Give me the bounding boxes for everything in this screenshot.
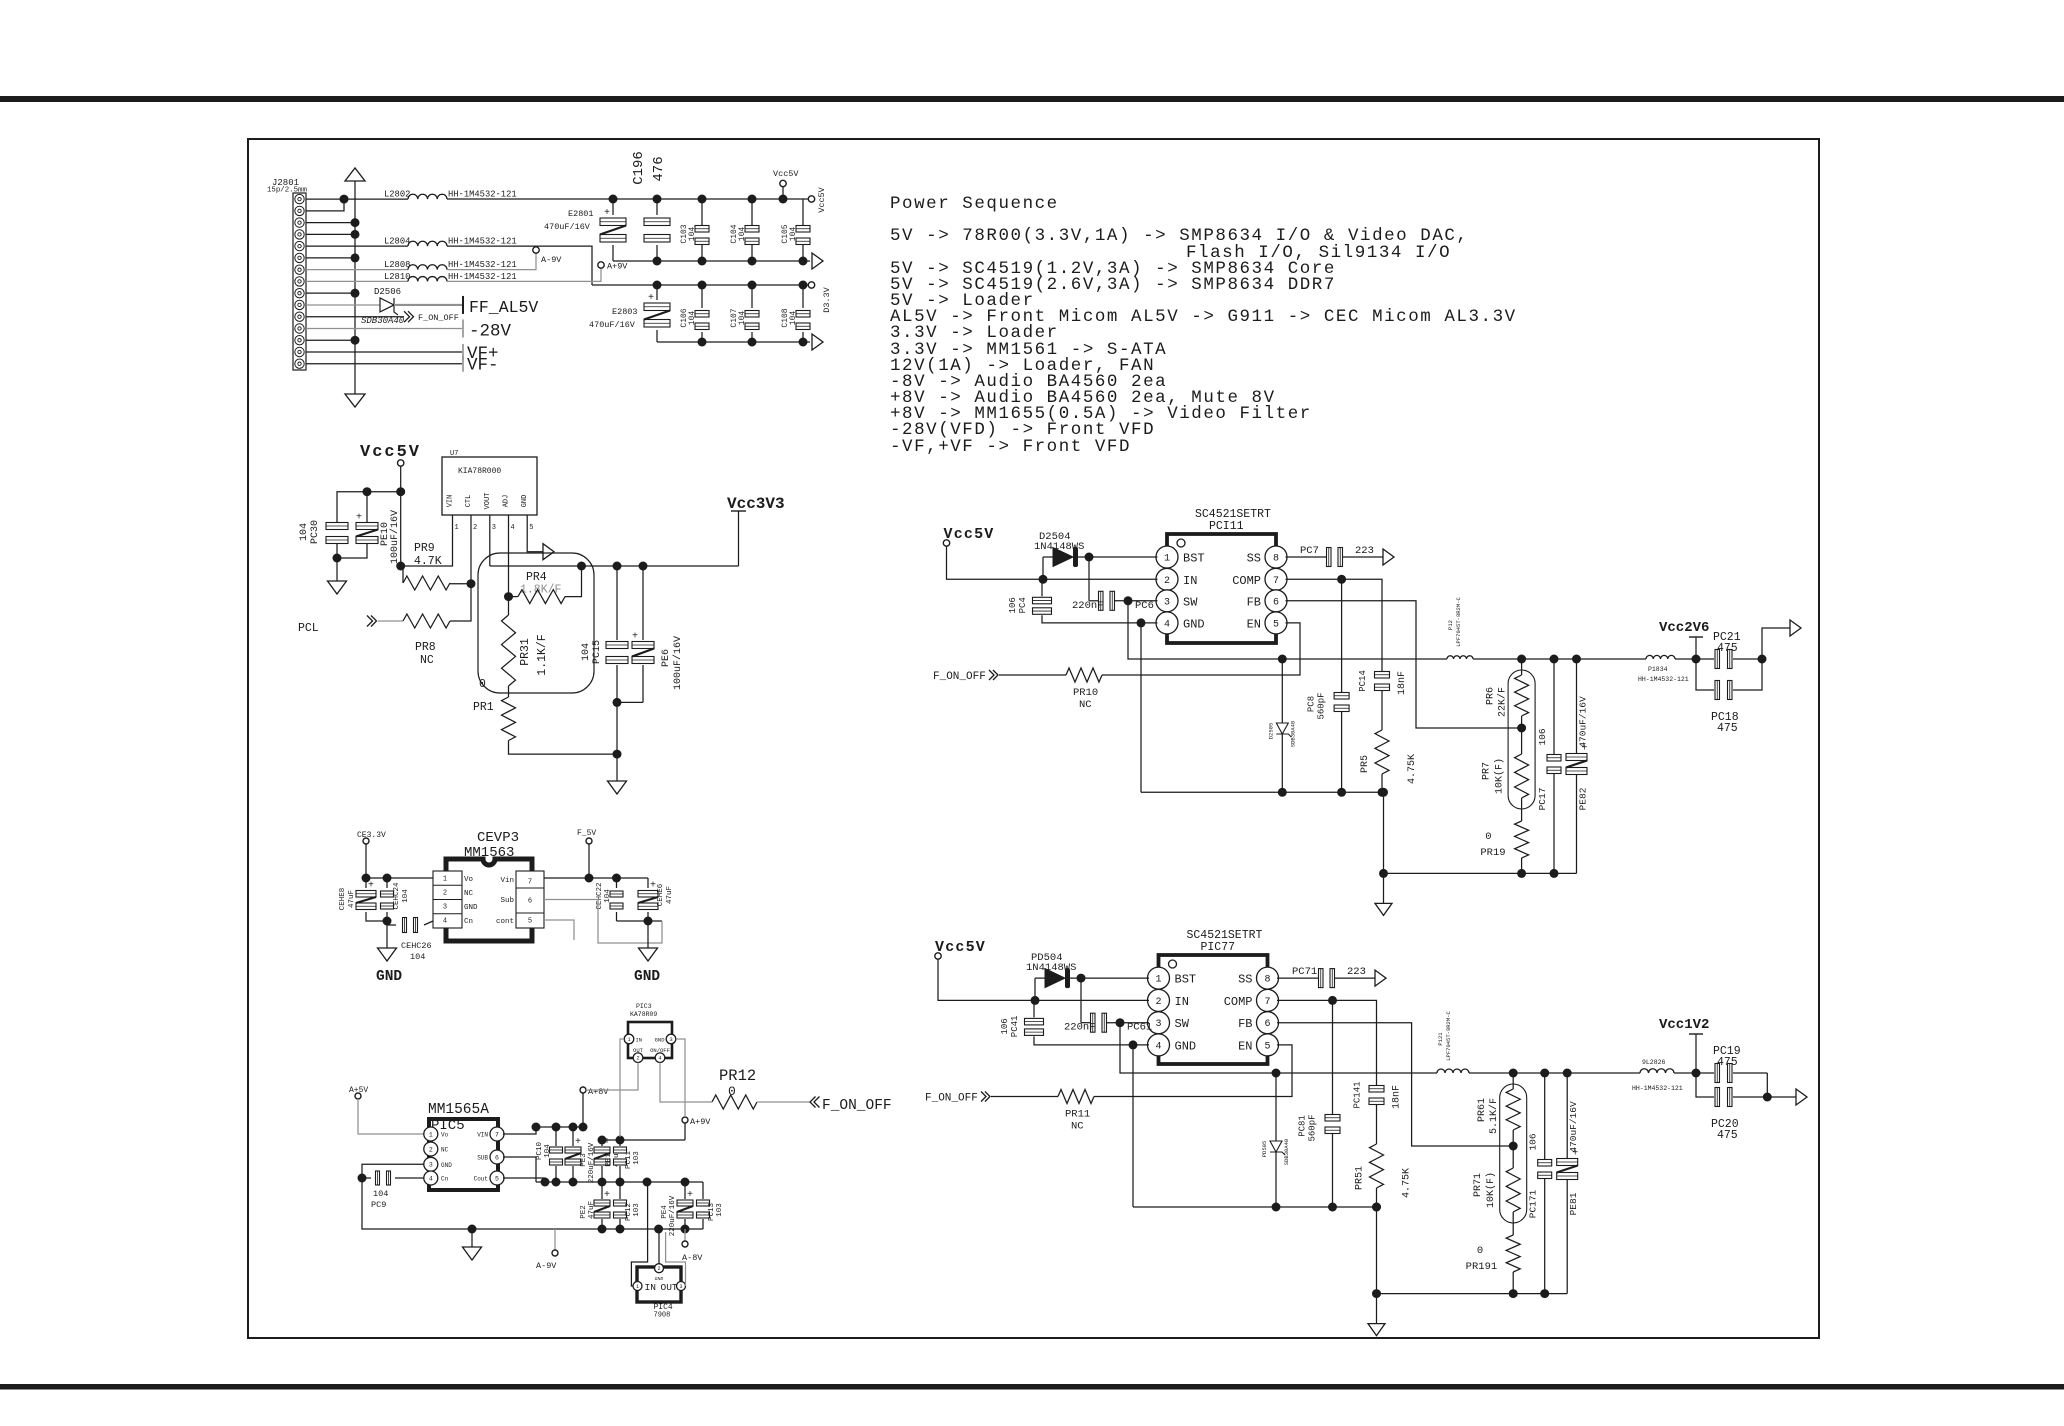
- wire PE10 bottom lead: [337, 544, 367, 558]
- svg-text:L2802: L2802: [384, 190, 410, 200]
- svg-text:PR71: PR71: [1473, 1173, 1484, 1197]
- svg-text:SW: SW: [1175, 1017, 1190, 1031]
- junction out node 2 (PIC77): [1763, 1093, 1772, 1102]
- wire PIC4 GND stem: [658, 1229, 660, 1264]
- label A-9V: [541, 255, 562, 265]
- svg-text:2: 2: [443, 890, 447, 898]
- label 470uF/16V (PE81) rotated: [1568, 1101, 1579, 1153]
- wire pin15 to VF-: [306, 363, 462, 365]
- wire PR to EN (PCI11): [1102, 623, 1300, 675]
- wire PIC4 IN feed: [631, 1182, 647, 1286]
- svg-text:PR12: PR12: [719, 1067, 756, 1085]
- label 10K(F) (PIC77) rotated: [1485, 1172, 1497, 1208]
- label SC4521SETRT (PCI11): [1195, 508, 1271, 521]
- label A+5V: [349, 1086, 368, 1095]
- wire MM1563 cont stub: [544, 920, 574, 940]
- svg-text:HH-1M4532-121: HH-1M4532-121: [448, 272, 517, 282]
- label 220nF (PCI11): [1072, 600, 1104, 612]
- wire A+5V to PIC5 Vo: [358, 1099, 424, 1134]
- svg-text:1: 1: [443, 876, 447, 884]
- schematic border frame: [248, 139, 1819, 1338]
- capacitor CEHE8 47uF: [356, 881, 376, 910]
- wire pin1 to L2802: [306, 198, 408, 200]
- wire C104 bottom lead: [751, 245, 753, 261]
- svg-text:104: 104: [688, 227, 697, 242]
- wire PC13 leads: [702, 1182, 704, 1199]
- wire zener lower lead (PIC77): [1275, 1152, 1277, 1207]
- svg-text:P1834: P1834: [1648, 666, 1668, 673]
- wire PC15 top lead: [616, 566, 618, 640]
- wire L2804 to lower rail: [447, 246, 592, 285]
- chevron F_ON_OFF in: [810, 1097, 820, 1108]
- label A-8V: [682, 1253, 703, 1263]
- label PIC5 pin Cn: [441, 1176, 449, 1183]
- junction stadium top (PCI11): [1517, 655, 1526, 664]
- net label -28V: [469, 321, 512, 341]
- capacitor PE4 220uF/16V: [677, 1190, 693, 1218]
- IC PIC3 pin 2 (OUT): [633, 1047, 644, 1062]
- net label F_ON_OFF (PIC77): [925, 1093, 978, 1105]
- net label F_ON_OFF (connector): [418, 313, 459, 323]
- wire COMP riser (PCI11): [1341, 579, 1343, 692]
- wire cathode to BST (PCI11): [1077, 556, 1158, 558]
- power sequence text line 1: [890, 194, 1059, 214]
- label PIC77 pin IN: [1175, 995, 1189, 1009]
- svg-text:FB: FB: [1247, 595, 1261, 609]
- wire PC14 to PR5: [1381, 691, 1383, 730]
- resistor PR31 1.1K/F: [502, 615, 516, 686]
- svg-text:COMP: COMP: [1224, 995, 1253, 1009]
- svg-text:3: 3: [492, 524, 496, 532]
- wire GND riser (PIC77): [1132, 1045, 1134, 1207]
- junction CTL node: [467, 579, 476, 588]
- junction CEHC22 top: [612, 874, 621, 883]
- label PC171 rotated: [1528, 1189, 1539, 1218]
- label PCI11: [1209, 520, 1244, 533]
- svg-text:100uF/16V: 100uF/16V: [672, 636, 684, 690]
- chevron F_ON_OFF (PCI11): [989, 670, 998, 680]
- svg-text:GND: GND: [376, 969, 402, 985]
- power sequence text line 15: [890, 437, 1131, 457]
- label 9L2826: [1642, 1059, 1666, 1066]
- capacitor PE1 47uF: [594, 1137, 610, 1165]
- label MM1565A: [428, 1102, 489, 1118]
- label PR1 value 0: [479, 678, 486, 691]
- junction divider mid (PCI11): [1517, 724, 1526, 733]
- label A-9V (PIC5): [536, 1261, 557, 1271]
- svg-text:220nF: 220nF: [1072, 600, 1104, 612]
- label C106 rotated: [680, 308, 689, 327]
- svg-text:D2505: D2505: [1267, 723, 1274, 740]
- net label FF_AL5V: [469, 298, 538, 317]
- svg-text:GND: GND: [634, 969, 660, 985]
- svg-text:7: 7: [528, 879, 532, 887]
- junction PIC5 gnd stem: [468, 1225, 477, 1234]
- wire zener lower lead (PCI11): [1281, 734, 1283, 792]
- net arrow SS (PIC77): [1375, 970, 1386, 986]
- terminal T-bar Vcc2V6: [1689, 636, 1703, 638]
- svg-text:SS: SS: [1238, 973, 1252, 987]
- net label Vcc3V3: [727, 495, 785, 513]
- label U7 pin CTL rotated: [465, 495, 473, 508]
- label MM1563 pin Cn: [464, 918, 473, 926]
- IC PCI11 SC4521SETRT body: [1167, 534, 1276, 643]
- terminal T-bar Vcc3V3: [731, 510, 746, 512]
- connector J2801 size label: [267, 187, 307, 195]
- label PC6: [1135, 600, 1154, 612]
- chevron F_ON_OFF (PIC77): [981, 1092, 990, 1102]
- junction Vcc5V rail x=783: [779, 195, 788, 204]
- connector J2801 15-pin header: [293, 193, 306, 370]
- capacitor C196 476: [644, 218, 670, 242]
- capacitor PE10 100uF/16V: [356, 513, 378, 544]
- svg-text:8: 8: [1273, 554, 1279, 565]
- junction PC8 bottom: [1337, 788, 1346, 797]
- svg-text:475: 475: [1717, 1056, 1738, 1069]
- wire pin12 to -28V: [306, 327, 462, 329]
- wire PR4 right lead: [565, 566, 582, 597]
- label PIC3: [636, 1003, 652, 1010]
- capacitor PC17 106: [1547, 755, 1561, 774]
- label PR12: [719, 1067, 756, 1085]
- label PIC4 OUT: [661, 1282, 678, 1293]
- label 470uF/16V (PE82) rotated: [1578, 696, 1589, 748]
- label PC21: [1713, 631, 1741, 644]
- terminal A+8V: [580, 1087, 586, 1093]
- svg-text:CEHC22: CEHC22: [596, 882, 604, 909]
- svg-text:PC171: PC171: [1528, 1189, 1539, 1218]
- wire PR19 bottom lead: [1521, 858, 1523, 873]
- label PIC5 pin GND: [441, 1162, 452, 1169]
- svg-text:PIC77: PIC77: [1201, 941, 1236, 954]
- svg-text:A+8V: A+8V: [588, 1087, 609, 1097]
- junction out node 2 (PCI11): [1758, 655, 1767, 664]
- svg-text:PR31: PR31: [519, 638, 532, 666]
- svg-text:223: 223: [1355, 545, 1374, 557]
- capacitor PC20 475: [1715, 1088, 1732, 1107]
- wire PC4 bottom lead: [1042, 615, 1158, 623]
- svg-text:0: 0: [479, 678, 486, 691]
- svg-text:223: 223: [1347, 966, 1366, 978]
- label 4.75K (PCI11) rotated: [1407, 754, 1418, 784]
- svg-text:PC7: PC7: [1300, 545, 1319, 557]
- svg-text:4.75K: 4.75K: [1402, 1168, 1413, 1198]
- svg-text:7: 7: [1264, 997, 1270, 1008]
- wire PIC3 ON/OFF to PR12: [660, 1063, 712, 1103]
- wire Vcc5V rail: [447, 198, 810, 200]
- junction zener bottom (PCI11): [1278, 788, 1287, 797]
- connector J2801 label: [272, 178, 299, 188]
- svg-text:3: 3: [669, 1036, 672, 1043]
- label 4.75K (PIC77) rotated: [1402, 1168, 1413, 1198]
- IC PIC4 pin 2 (GND): [655, 1264, 664, 1282]
- ground (PCI11): [1375, 903, 1392, 915]
- label SDB30A40: [361, 316, 405, 326]
- label E2801: [568, 209, 594, 219]
- svg-text:HH-1M4532-121: HH-1M4532-121: [448, 190, 517, 200]
- svg-text:A+9V: A+9V: [607, 262, 628, 272]
- svg-text:GND: GND: [655, 1037, 666, 1044]
- label PC17 rotated: [1537, 788, 1548, 811]
- svg-text:COMP: COMP: [1232, 574, 1261, 588]
- divider outline stadium (PCI11): [1508, 670, 1535, 809]
- label SDB30A40 (PCI11) rotated: [1289, 721, 1296, 747]
- wire C108 top lead: [802, 285, 804, 308]
- svg-text:470uF/16V: 470uF/16V: [1578, 696, 1589, 748]
- svg-text:F_ON_OFF: F_ON_OFF: [933, 671, 986, 683]
- junction VOUT line x=617: [613, 562, 622, 571]
- svg-text:5: 5: [1264, 1041, 1270, 1052]
- svg-text:PE1: PE1: [605, 1153, 613, 1167]
- wire SS lead (PIC77): [1277, 977, 1318, 979]
- svg-text:7908: 7908: [654, 1312, 671, 1320]
- label C107 rotated: [730, 308, 739, 327]
- svg-text:4.75K: 4.75K: [1407, 754, 1418, 784]
- wire diode riser (PCI11): [1042, 557, 1044, 579]
- label PC14 rotated: [1358, 670, 1368, 692]
- label 220nF (PIC77): [1064, 1022, 1096, 1034]
- svg-text:103: 103: [633, 1151, 641, 1165]
- wire Vcc5V terminal stem: [782, 187, 784, 199]
- svg-text:Cn: Cn: [464, 918, 473, 926]
- label HH-1M4532-121 (PCI11): [1638, 676, 1689, 683]
- wire gnd symbol stem (PCI11): [1383, 873, 1385, 903]
- wire Vcc3V3 stem: [738, 511, 740, 566]
- capacitor PC171 106: [1538, 1160, 1552, 1179]
- label L2810: [384, 272, 410, 282]
- power sequence text line 3: [1186, 243, 1451, 263]
- label 223 (PCI11): [1355, 545, 1374, 557]
- ground (U7 output): [608, 781, 627, 794]
- wire MM1563 Sub route: [544, 900, 662, 944]
- wire Vcc5V to IN (PCI11): [947, 546, 1158, 579]
- junction GND riser (PIC77): [1129, 1040, 1138, 1049]
- capacitor C108 104: [796, 311, 810, 330]
- svg-text:1: 1: [1155, 975, 1161, 986]
- feedback network outline (stadium): [478, 553, 594, 693]
- svg-text:Vin: Vin: [500, 877, 514, 885]
- wire PE81 bottom lead: [1566, 1179, 1568, 1294]
- label PC13 value 103 rotated: [716, 1203, 724, 1217]
- capacitor PC9 104: [376, 1171, 391, 1185]
- junction Vout node (PIC77): [1692, 1069, 1701, 1078]
- capacitor PE81 470uF/16V: [1557, 1149, 1579, 1180]
- wire PE4 top lead: [684, 1182, 686, 1199]
- label PE1 value 47uF rotated: [613, 1149, 621, 1167]
- svg-text:Vcc5V: Vcc5V: [935, 939, 986, 956]
- label PIC4: [654, 1303, 673, 1312]
- wire PC15 gnd to PR1 node: [616, 702, 618, 781]
- wire inductor2 to Vout node (PIC77): [1674, 1072, 1696, 1074]
- junction PC30/PE10 bottoms: [333, 554, 342, 563]
- junction zener top (PCI11): [1278, 655, 1287, 664]
- ground (CEVP3 right): [639, 948, 658, 961]
- wire U7 ADJ stub: [508, 515, 510, 597]
- label PCI11 pin EN: [1247, 617, 1261, 631]
- bottom horizontal rule: [0, 1384, 2064, 1390]
- svg-text:5: 5: [495, 1175, 499, 1182]
- svg-text:PIC3: PIC3: [636, 1003, 652, 1010]
- svg-text:EN: EN: [1238, 1039, 1252, 1053]
- label PE2 value 47uF rotated: [588, 1201, 596, 1219]
- junction divider mid (PIC77): [1509, 1142, 1518, 1151]
- label SDB30A40 (PIC77) rotated: [1283, 1139, 1290, 1165]
- svg-text:PR1: PR1: [473, 701, 494, 714]
- wire A+9V rail: [602, 1139, 685, 1141]
- capacitor C107 104: [745, 311, 759, 330]
- wire PE3 bottom lead: [572, 1166, 574, 1182]
- wire C106 top lead: [701, 285, 703, 308]
- power sequence text line 12: [890, 388, 1276, 408]
- wire diode riser (PIC77): [1034, 978, 1036, 1000]
- label 0 (PR191): [1477, 1245, 1483, 1257]
- svg-text:OUT: OUT: [661, 1282, 678, 1293]
- wire pin9 to ground bus: [306, 292, 355, 294]
- wire PR12 to F_ON_OFF: [757, 1101, 810, 1103]
- label U7 pin GND rotated: [521, 495, 529, 508]
- junction 3.3V rail x=702: [698, 281, 707, 290]
- label CEHC24 value 104 rotated: [402, 889, 410, 903]
- svg-text:4: 4: [511, 524, 515, 532]
- svg-text:470uF/16V: 470uF/16V: [544, 222, 591, 232]
- wire A+8V stem: [582, 1093, 584, 1127]
- junction pin13 on ground bus: [351, 336, 360, 345]
- svg-text:CEHE6: CEHE6: [657, 883, 665, 906]
- svg-text:475: 475: [1717, 722, 1738, 735]
- svg-text:560pF: 560pF: [1308, 1114, 1318, 1141]
- net label F_ON_OFF (PCI11): [933, 671, 986, 683]
- label 106 (PC41) rotated: [1000, 1018, 1010, 1034]
- svg-text:104: 104: [738, 227, 747, 242]
- wire post-inductor rail (PIC77): [1469, 1072, 1640, 1074]
- svg-text:PR5: PR5: [1360, 755, 1371, 773]
- svg-text:475: 475: [1717, 642, 1738, 655]
- junction BST/220nF riser (PCI11): [1085, 553, 1094, 562]
- label D2506: [374, 287, 401, 297]
- wire C103 top lead: [701, 199, 703, 225]
- svg-text:PC141: PC141: [1353, 1081, 1363, 1108]
- junction F_5V: [585, 874, 594, 883]
- svg-text:Vo: Vo: [441, 1132, 449, 1139]
- IC PCI11 left pin circles 1-4: [1156, 546, 1178, 634]
- svg-text:Vo: Vo: [464, 876, 474, 884]
- label NC (PCI11): [1079, 699, 1092, 711]
- wire CEHE6 bottom lead: [647, 912, 649, 921]
- terminal A-9V (PIC5): [552, 1250, 558, 1256]
- wire PR61 top lead: [1512, 1073, 1514, 1089]
- svg-text:PR19: PR19: [1480, 847, 1505, 859]
- net label PCL: [298, 622, 319, 635]
- svg-text:BST: BST: [1175, 973, 1197, 987]
- svg-text:2: 2: [1155, 997, 1161, 1008]
- svg-text:NC: NC: [1079, 699, 1092, 711]
- junction bottom rail x=685: [681, 1225, 690, 1234]
- diode D2506: [380, 298, 398, 315]
- label MM1563 pin NC: [464, 890, 474, 898]
- capacitor PC15 104: [606, 642, 628, 664]
- svg-text:104: 104: [789, 311, 798, 326]
- capacitor PC81 560pF: [1325, 1115, 1340, 1134]
- terminal A+5V: [355, 1093, 361, 1099]
- wire 3.3V-bank ground rail: [657, 341, 810, 343]
- wire PR4 left lead: [509, 596, 519, 598]
- svg-text:10K(F): 10K(F): [1485, 1172, 1497, 1208]
- label PE6 value 100uF/16V rotated: [672, 636, 684, 690]
- IC PIC3 pin 3 (GND): [655, 1034, 676, 1044]
- resistor PR71 10K(F): [1506, 1168, 1520, 1212]
- wire C196 top lead: [656, 199, 658, 215]
- wire to out arrow (PCI11): [1762, 628, 1790, 659]
- svg-text:PR4: PR4: [526, 571, 547, 584]
- svg-text:ON/OFF: ON/OFF: [650, 1047, 670, 1054]
- label PD504: [1031, 952, 1063, 964]
- terminal Vcc5V rail right end: [808, 196, 814, 202]
- svg-text:8: 8: [1264, 975, 1270, 986]
- junction bank2 gnd rail x=752: [748, 338, 757, 347]
- IC CEVP3/MM1563 bottom bracket: [446, 928, 532, 941]
- label PR5 rotated: [1360, 755, 1371, 773]
- svg-text:SDB30A40: SDB30A40: [1283, 1139, 1290, 1165]
- svg-text:CEVP3: CEVP3: [477, 830, 519, 846]
- svg-text:VIN: VIN: [447, 495, 455, 508]
- label MM1563 pin GND: [464, 904, 478, 912]
- wire PE6 bottom lead: [642, 665, 644, 702]
- resistor PR8 NC: [403, 614, 450, 628]
- junction mid rail x=573: [569, 1178, 578, 1187]
- wire PR to EN (PIC77): [1094, 1045, 1292, 1097]
- label PC10 rotated: [536, 1142, 544, 1161]
- label PCI11 pin GND: [1183, 617, 1205, 631]
- label 104 (PC30) rotated: [299, 523, 310, 541]
- junction A+8V rail left: [532, 1123, 541, 1132]
- junction bank1 gnd rail x=752: [748, 257, 757, 266]
- capacitor PC11 103: [614, 1147, 627, 1165]
- wire gnd tier2 rail (PCI11): [1384, 872, 1577, 874]
- IC PIC5 right pin circles: [490, 1127, 504, 1185]
- label SC4521SETRT (PIC77): [1187, 929, 1263, 942]
- wire CEHE8 bottom lead: [366, 912, 387, 921]
- svg-text:104: 104: [688, 311, 697, 326]
- resistor PR51 4.75K: [1370, 1144, 1384, 1188]
- wire PE4 bottom lead: [684, 1219, 686, 1229]
- label PIC77: [1201, 941, 1236, 954]
- label PR4: [526, 571, 547, 584]
- wire PR8 right lead up to CTL: [450, 584, 471, 621]
- wire COMP line (PIC77): [1277, 999, 1333, 1001]
- svg-text:GND: GND: [521, 495, 529, 508]
- label PE10 value 100uF/16V rotated: [389, 510, 401, 564]
- wire COMP riser (PIC77): [1332, 1000, 1334, 1114]
- label CEHC26: [401, 941, 432, 951]
- net tap bar FF_AL5V: [462, 296, 464, 314]
- wire CEHC24 bottom lead: [386, 912, 388, 929]
- wire post-inductor rail (PCI11): [1473, 658, 1646, 660]
- wire gnd tier2 rail (PIC77): [1377, 1293, 1568, 1295]
- junction ADJ node: [504, 592, 513, 601]
- junction Vcc5V rail x=752: [748, 195, 757, 204]
- wire C104 top lead: [751, 199, 753, 225]
- svg-text:GND: GND: [441, 1162, 452, 1169]
- svg-text:1: 1: [429, 1131, 433, 1138]
- junction mid rail x=545: [541, 1178, 550, 1187]
- wire PC19 right lead: [1733, 1072, 1767, 1074]
- junction Vcc5V rail x=702: [698, 195, 707, 204]
- wire PE82 top lead: [1576, 659, 1578, 754]
- wire CEHE6 top lead: [647, 878, 649, 888]
- label CEHC22 rotated: [596, 882, 604, 909]
- label U7 pin ADJ rotated: [503, 495, 511, 508]
- IC PIC77 SC4521SETRT body: [1159, 955, 1268, 1064]
